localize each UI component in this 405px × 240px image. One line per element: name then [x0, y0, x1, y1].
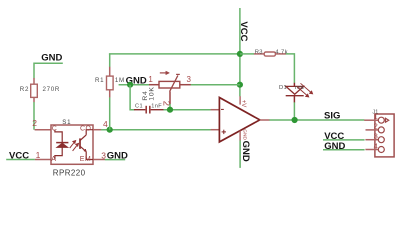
- svg-text:S1: S1: [62, 119, 71, 126]
- svg-text:EM: EM: [80, 156, 91, 163]
- svg-text:GND: GND: [240, 141, 251, 162]
- resistor R1: [107, 67, 114, 98]
- opto internal LED: [55, 130, 69, 160]
- wire R3 right, corner down to D1: [286, 54, 295, 83]
- connector pin stubs: [364, 120, 378, 149]
- svg-text:C1: C1: [135, 104, 143, 110]
- LED D1: [286, 83, 304, 103]
- wire op-amp GND down: [239, 140, 241, 168]
- wire VCC to opto pin1: [6, 159, 35, 161]
- wire R3 left to VCC junction: [240, 53, 254, 55]
- wire R1 bottom: [109, 97, 111, 130]
- svg-text:CO: CO: [80, 126, 91, 133]
- svg-text:+V: +V: [240, 100, 246, 108]
- svg-text:1: 1: [148, 75, 153, 84]
- svg-text:3: 3: [374, 132, 378, 141]
- resistor R2: [31, 78, 38, 102]
- op-amp U1 triangle: [219, 98, 259, 142]
- op-amp +V pin: [239, 96, 241, 104]
- junction VCC / trimmer row: [237, 82, 243, 88]
- svg-text:1: 1: [374, 112, 378, 121]
- wire R2 to opto pin 2: [33, 102, 35, 130]
- svg-text:A: A: [51, 156, 56, 163]
- svg-text:4: 4: [374, 141, 378, 150]
- svg-text:RPR220: RPR220: [53, 169, 86, 178]
- connector J1 body: [375, 114, 394, 157]
- pin stub opto pin4: [93, 129, 102, 131]
- wire GND right row: [323, 149, 365, 151]
- wire op-amp output to SIG / connector: [269, 119, 364, 121]
- svg-text:4: 4: [103, 119, 108, 129]
- pin stub opto pin3: [93, 159, 105, 161]
- pin stub op-amp plus: [211, 129, 220, 131]
- svg-text:R3: R3: [255, 50, 263, 56]
- wire C1 to op-amp minus input: [164, 109, 211, 111]
- junction GND / C1 branch: [127, 82, 133, 88]
- junction D1 / output: [292, 117, 298, 123]
- pin stub op-amp output: [260, 119, 270, 121]
- trimmer R4: [149, 71, 191, 104]
- opto light arrows: [70, 141, 79, 151]
- opto internal phototransistor: [80, 130, 93, 160]
- wire VCC right row: [323, 139, 365, 141]
- svg-text:GND: GND: [107, 150, 128, 161]
- wire trimmer pin3 to VCC: [191, 84, 240, 86]
- svg-text:270R: 270R: [43, 86, 61, 93]
- svg-text:1M: 1M: [115, 77, 125, 84]
- connector pin pads: [378, 117, 388, 152]
- junction VCC / rail: [237, 51, 243, 57]
- wire GND stub at opto pin3: [105, 159, 125, 161]
- wire D1 to output row: [293, 102, 295, 120]
- capacitor C1: [134, 106, 164, 114]
- junction wiper / minus row: [167, 107, 173, 113]
- wire opto pin4 to op-amp plus input: [101, 129, 211, 131]
- op-amp plus mark: [222, 130, 226, 134]
- wire GND elbow down to C1: [130, 85, 134, 110]
- op-amp GND pin: [239, 131, 241, 141]
- svg-text:GND: GND: [41, 53, 62, 64]
- svg-text:1nF: 1nF: [151, 104, 162, 110]
- wire wiper to minus row: [169, 104, 171, 110]
- svg-text:10K: 10K: [148, 86, 155, 100]
- svg-text:C: C: [52, 126, 57, 133]
- svg-text:3: 3: [187, 75, 192, 84]
- wire GND stub to R2 top: [34, 63, 63, 78]
- pin stub op-amp minus: [211, 109, 220, 111]
- op-amp minus mark: [221, 108, 224, 110]
- svg-text:2: 2: [374, 122, 378, 131]
- svg-text:GND: GND: [324, 141, 345, 152]
- svg-text:R2: R2: [20, 86, 29, 93]
- svg-text:VCC: VCC: [238, 21, 249, 41]
- connector pin numbers: [374, 112, 378, 150]
- optocoupler S1 RPR220 body: [51, 125, 93, 164]
- svg-text:VCC: VCC: [9, 151, 29, 162]
- junction at R1 bottom: [107, 127, 113, 133]
- svg-text:4.7k: 4.7k: [275, 50, 288, 56]
- svg-text:2: 2: [32, 118, 37, 128]
- D1 light arrows: [297, 83, 313, 97]
- svg-text:1: 1: [36, 150, 41, 160]
- wire GND stub to trimmer pin1: [119, 84, 150, 86]
- svg-text:R1: R1: [95, 77, 104, 84]
- wire VCC vertical: [239, 8, 241, 96]
- svg-text:D1: D1: [279, 85, 287, 91]
- pin stub opto pin1: [35, 159, 51, 161]
- svg-text:GND: GND: [242, 129, 248, 140]
- resistor R3: [254, 52, 286, 56]
- wire top rail R1 to VCC: [109, 53, 240, 55]
- pin stub opto pin2: [35, 129, 51, 131]
- wire R1 top to rail: [109, 54, 111, 67]
- svg-text:SIG: SIG: [324, 111, 340, 122]
